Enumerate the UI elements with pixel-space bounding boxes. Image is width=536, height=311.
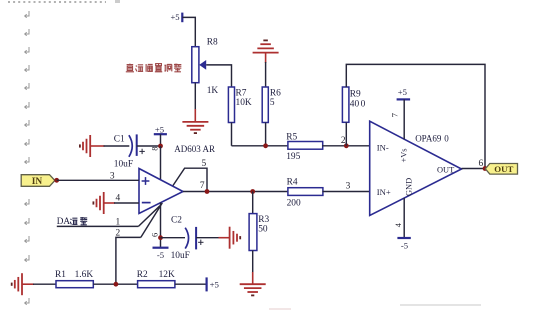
svg-text:195: 195: [286, 152, 300, 162]
capacitor C1 curved plate: [129, 135, 132, 157]
svg-text:-5: -5: [157, 250, 164, 260]
resistor R6 body: [262, 87, 268, 123]
wire IN to AD603 pin 3: [57, 179, 139, 181]
junction R6 bottom node: [263, 143, 268, 148]
wire +5 to R8 top: [182, 17, 195, 47]
decorative faint cropped line at page bottom: [400, 304, 481, 306]
wire R9 bottom to IN- node: [345, 123, 347, 146]
resistor R3 body: [249, 214, 257, 251]
power -5 supply (AD603 pin 6): [153, 247, 169, 249]
svg-text:+5: +5: [398, 87, 407, 97]
wire ground to C1: [90, 145, 104, 147]
svg-text:12K: 12K: [159, 270, 175, 280]
svg-text:7: 7: [200, 181, 205, 191]
resistor R7 body: [228, 87, 234, 123]
label 直流偏置调整 (DC bias adjust): [126, 64, 134, 72]
capacitor C2 straight plate: [195, 227, 197, 250]
svg-text:IN-: IN-: [377, 142, 389, 152]
svg-text:OUT: OUT: [437, 166, 454, 175]
svg-text:R4: R4: [287, 177, 298, 187]
svg-text:1.6K: 1.6K: [75, 270, 94, 280]
wire C1 to +5/pin8 node: [137, 145, 161, 147]
svg-text:AD603 AR: AD603 AR: [174, 144, 215, 154]
resistor R2 body: [138, 281, 175, 288]
wire R1 to R2: [93, 283, 137, 285]
ground at R1 (rotated): [21, 273, 23, 295]
junction node output/feedback: [483, 166, 488, 171]
wire R3 bottom to ground: [252, 251, 254, 274]
wire ground to AD603 pin 4: [104, 202, 115, 204]
port OUT flag: [485, 164, 517, 175]
resistor R5 body: [288, 142, 323, 150]
wire pin 8 stem of AD603: [160, 146, 162, 180]
svg-text:10uF: 10uF: [114, 159, 133, 169]
wire R7 bottom: [231, 123, 233, 146]
wire pin 5 to pin 7 loop: [173, 168, 207, 191]
svg-text:0: 0: [444, 133, 449, 143]
wire pin 6 stem of AD603: [160, 203, 162, 248]
wire R8 bottom to ground: [194, 83, 196, 110]
svg-text:GND: GND: [405, 178, 414, 196]
op-amp U2 OPA690 triangle: [370, 121, 462, 215]
ground at AD603 pin 4 (rotated): [103, 192, 105, 214]
ground below R3: [240, 283, 266, 285]
svg-text:4: 4: [116, 193, 121, 203]
svg-text:R7: R7: [236, 88, 247, 98]
svg-text:+5: +5: [210, 280, 220, 290]
minus input marker of AD603: [142, 202, 151, 204]
svg-text:+5: +5: [155, 124, 164, 134]
svg-text:1: 1: [116, 217, 121, 227]
power -5 supply (OPA690 pin 4): [397, 237, 410, 239]
wire pin 1 of AD603: [57, 225, 139, 227]
svg-text:-5: -5: [401, 241, 408, 251]
wire output node to R3: [252, 192, 254, 214]
decorative cropped text line at page top: [8, 1, 106, 3]
junction node R1/R2/pin2: [114, 282, 119, 287]
svg-text:DA: DA: [57, 216, 71, 226]
wire R7/R6 node to R5: [232, 145, 288, 147]
decorative paragraph marks: [25, 11, 29, 18]
potentiometer R8 wiper arrow: [199, 60, 206, 70]
svg-text:50: 50: [258, 224, 268, 234]
wire ground to R1: [22, 283, 34, 285]
svg-text:R5: R5: [286, 132, 297, 142]
svg-text:8: 8: [150, 147, 159, 151]
potentiometer R8 body: [192, 47, 199, 83]
ground at C1 (rotated): [89, 135, 91, 157]
svg-text:R8: R8: [207, 37, 218, 47]
resistor R9 body: [342, 87, 349, 122]
wire R8 wiper to R7 top: [206, 65, 231, 87]
svg-text:0: 0: [361, 99, 366, 109]
svg-text:R6: R6: [270, 88, 281, 98]
wire R4 to OPA690 IN+ pin 3: [322, 191, 369, 193]
capacitor C1 straight plate: [136, 134, 138, 156]
svg-text:6: 6: [479, 159, 484, 169]
resistor R4 body: [288, 188, 323, 196]
ground at C2 (rotated): [229, 227, 231, 249]
junction node R3 top: [250, 189, 255, 194]
junction node IN- / R9: [344, 143, 349, 148]
svg-text:IN+: IN+: [377, 187, 391, 197]
wire feedback R9 top to output node: [346, 64, 485, 168]
svg-text:+Vs: +Vs: [400, 148, 409, 162]
svg-text:OPA69: OPA69: [415, 133, 442, 143]
wire pin 4 stem of OPA690: [403, 198, 405, 238]
resistor R1 body: [56, 281, 93, 288]
svg-text:7: 7: [391, 113, 400, 117]
junction node pin5/pin7: [205, 189, 210, 194]
wire R2 to +5: [175, 283, 207, 285]
svg-text:R2: R2: [137, 270, 148, 280]
wire pin 7 stem of OPA690: [403, 99, 405, 139]
svg-text:+5: +5: [170, 12, 179, 22]
svg-text:5: 5: [270, 98, 275, 108]
plus sign of C2: [198, 240, 203, 245]
svg-text:C1: C1: [114, 135, 125, 145]
plus sign of C1: [139, 149, 144, 154]
junction node pin6/C2: [158, 235, 163, 240]
svg-text:C2: C2: [171, 215, 182, 225]
pin 2 lead diagonal: [141, 203, 163, 238]
port IN flag: [21, 175, 55, 187]
junction node C1/+5/pin8: [158, 144, 163, 149]
svg-text:2: 2: [116, 229, 121, 239]
op-amp U1 AD603 triangle: [139, 169, 183, 214]
svg-text:4: 4: [394, 222, 403, 227]
wire OPA690 output pin 6: [462, 168, 486, 170]
svg-text:200: 200: [287, 198, 301, 208]
wire R5 to OPA690 IN- pin 2: [322, 145, 370, 147]
svg-text:R9: R9: [350, 89, 361, 99]
svg-text:3: 3: [346, 181, 351, 191]
svg-text:OUT: OUT: [494, 164, 513, 174]
svg-text:3: 3: [110, 171, 115, 181]
svg-text:5: 5: [202, 159, 207, 169]
svg-text:IN: IN: [32, 177, 43, 187]
junction node at IN: [54, 178, 59, 183]
wire C2 to ground: [196, 237, 219, 239]
pin 1 lead diagonal: [138, 206, 160, 227]
ground above R6 (inverted): [253, 52, 279, 54]
svg-text:1K: 1K: [207, 86, 219, 96]
wire pin 2 of AD603 from R1/R2 node: [116, 237, 141, 284]
wire pin 6 node to C2: [161, 237, 186, 239]
wire ground to R6 top: [265, 53, 267, 63]
capacitor C2 curved plate: [185, 228, 188, 249]
svg-text:R1: R1: [55, 270, 66, 280]
wire R6 bottom: [265, 123, 267, 146]
svg-text:10K: 10K: [236, 98, 252, 108]
power +5 supply (R2 right): [206, 277, 208, 291]
svg-text:6: 6: [151, 233, 160, 237]
svg-text:10uF: 10uF: [171, 251, 190, 261]
svg-text:40: 40: [350, 99, 360, 109]
ground below R8: [182, 121, 208, 123]
plus input marker of AD603: [142, 177, 150, 185]
wire AD603 output to R4: [183, 191, 287, 193]
